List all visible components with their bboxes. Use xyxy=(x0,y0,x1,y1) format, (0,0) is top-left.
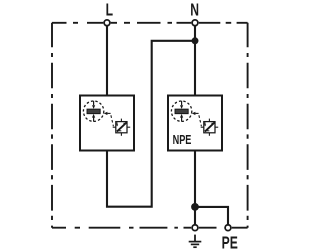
svg-text:N: N xyxy=(190,1,199,21)
svg-text:PE: PE xyxy=(222,234,238,250)
surge protection element symbol, N-PE module xyxy=(171,101,218,136)
terminal PE xyxy=(225,225,231,231)
bottom arrow pointing into varistor xyxy=(93,117,95,121)
thermal disconnect actuator arrow xyxy=(104,112,108,115)
ground xyxy=(189,235,202,248)
device boundary right edge xyxy=(247,23,249,228)
N-PE spark gap module box xyxy=(168,96,222,151)
device boundary left edge xyxy=(51,23,53,228)
terminal earth xyxy=(192,225,198,231)
junction dot on PE conductor xyxy=(191,203,199,211)
surge protection element symbol, L module xyxy=(83,101,130,136)
disconnector square xyxy=(116,122,127,133)
terminal N xyxy=(192,20,198,26)
disconnector stubs xyxy=(113,126,116,128)
disconnector diagonal contact xyxy=(117,122,127,131)
junction dot on N conductor xyxy=(192,37,199,44)
svg-text:NPE: NPE xyxy=(173,134,192,148)
label NPE xyxy=(173,134,192,148)
terminal L xyxy=(104,20,110,26)
wire L terminal to protection module box xyxy=(106,23,108,96)
varistor block xyxy=(87,109,100,114)
wire protection module bottom to N junction xyxy=(107,41,195,207)
top arrow pointing into varistor xyxy=(93,101,95,105)
wire N terminal down to N-PE module box (through junction) xyxy=(194,23,196,96)
diagonal top tick xyxy=(123,122,126,124)
diagonal bottom foot tick xyxy=(117,130,121,132)
trip pointer inside square xyxy=(116,122,118,125)
device boundary bottom edge xyxy=(52,227,248,229)
wire PE junction to PE terminal xyxy=(195,207,228,225)
label L xyxy=(106,1,113,21)
thermal monitoring dashed circle xyxy=(83,101,103,121)
device boundary (dash-dot enclosure) top edge xyxy=(52,22,248,24)
dashed mechanical link to disconnector xyxy=(111,115,114,126)
protection module box (L path) xyxy=(80,96,134,151)
label PE xyxy=(222,234,238,250)
label N xyxy=(190,1,199,21)
svg-text:L: L xyxy=(106,1,113,21)
wire N-PE module bottom to earth terminal xyxy=(194,151,196,226)
